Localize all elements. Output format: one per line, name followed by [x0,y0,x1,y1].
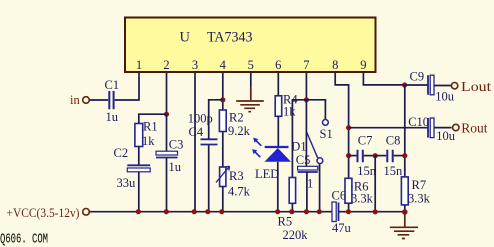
svg-text:R7: R7 [412,178,427,192]
node Rout terminal [453,121,488,136]
svg-text:Lout: Lout [461,79,491,94]
wire rail right of C6 [339,211,405,213]
capacitor C2 [114,146,151,190]
wire C4 to rail [208,145,210,212]
wire pin7 to C5 [305,100,307,167]
node Lout terminal [451,79,491,94]
svg-text:C3: C3 [169,138,184,152]
svg-text:3.3k: 3.3k [408,192,431,206]
wire R7 to rail [404,205,406,212]
svg-text:C5: C5 [296,153,311,167]
svg-text:D1: D1 [291,140,306,154]
svg-text:5: 5 [248,58,254,72]
svg-text:R5: R5 [278,215,293,229]
svg-text:33u: 33u [117,176,137,190]
capacitor C4 [188,112,218,145]
wire C9 to Lout [434,85,451,87]
IC U TA7343 [125,18,376,73]
resistor R4 [275,93,298,119]
node rail junction D1 [275,209,280,214]
svg-text:TA7343: TA7343 [207,30,253,46]
wire C2 to rail [138,172,140,212]
node junction pin2/R1/C3 [164,112,169,117]
node rail junction R6 [346,209,351,214]
svg-text:C1: C1 [105,78,120,92]
wire pin 2 down [166,73,168,114]
node rail junction C3 [164,209,169,214]
resistor R1 [135,120,158,149]
svg-text:1k: 1k [142,134,155,148]
wire junction to C4 [209,100,223,139]
wire junction to C9 [405,84,429,86]
svg-text:Rout: Rout [461,121,488,136]
node junction pin7 [304,97,309,102]
wire C7 to node [364,155,375,157]
wire junction to C7 [349,155,357,157]
resistor R7 [401,177,430,206]
node junction C8/R7 [402,153,407,158]
svg-text:10u: 10u [436,129,456,143]
capacitor C8 [384,133,404,178]
wire R4 to D1 [277,116,279,146]
svg-text:6: 6 [275,58,281,72]
svg-text:4.7k: 4.7k [228,185,251,199]
resistor R6 [345,178,374,205]
wire R6 to rail [348,203,350,212]
svg-text:C6: C6 [332,188,347,202]
wire C10 to Rout [434,127,451,129]
svg-text:15n: 15n [384,164,404,178]
node junction pin8/C7 [346,153,351,158]
wire C5 to rail [306,172,308,211]
node in terminal [70,93,89,107]
svg-text:S1: S1 [320,127,333,141]
wire junction to C3 [166,114,168,151]
svg-text:3.3k: 3.3k [351,192,374,206]
capacitor C10 [408,115,456,143]
svg-text:2: 2 [163,58,169,72]
svg-text:in: in [70,93,80,107]
node junction pin8/C10 [346,125,351,130]
node rail junction C4 [205,209,210,214]
svg-text:LED: LED [255,167,279,181]
capacitor C7 [357,133,377,178]
svg-text:220k: 220k [283,228,309,242]
node rail junction pin3 [192,209,197,214]
svg-text:1: 1 [307,177,313,191]
svg-text:R2: R2 [229,111,244,125]
wire pin 8 down [335,73,348,178]
wire R1 to C2 [138,147,140,165]
svg-text:R3: R3 [229,169,244,183]
wire junction to R1 [139,114,167,123]
wire in to C1 [90,99,109,101]
wire junction to R5 [292,100,306,178]
wire pin9 node down to R7 [404,85,406,177]
svg-text:Q606. COM: Q606. COM [0,233,48,247]
node rail junction R7/ground [402,209,408,215]
wire junction to S1 top [306,100,325,120]
capacitor C9 [410,70,455,104]
resistor R5 [278,178,309,243]
wire pin 6 to R4 [277,73,279,96]
svg-text:3: 3 [192,58,198,72]
wire pin 3 to rail [194,73,196,212]
capacitor C3 [156,138,183,175]
node rail junction C5 [304,209,309,214]
svg-text:+VCC(3.5-12v): +VCC(3.5-12v) [7,206,80,220]
svg-text:10u: 10u [435,90,455,104]
wire pin 7 down [305,73,307,100]
ground at pin 5 [236,87,264,112]
svg-text:U: U [180,30,191,46]
node rail junction C7/C8 [373,209,378,214]
svg-text:1k: 1k [283,105,296,119]
node rail junction R5 [289,209,294,214]
node junction pin9/C9 [402,82,407,87]
resistor R3 (variable) [216,166,251,198]
wire S1 to rail [319,164,321,212]
wire R3 to rail [222,187,224,212]
switch S1 [306,120,332,164]
svg-text:C4: C4 [189,125,204,139]
capacitor C5 [296,153,318,191]
wire VCC rail left [90,211,333,213]
svg-text:4: 4 [220,58,227,72]
LED D1 [252,138,306,181]
node VCC terminal [7,206,90,220]
node rail junction S1 [317,209,322,214]
node junction C7/C8 [373,153,378,158]
wire pin 5 down [250,73,252,87]
svg-text:15n: 15n [357,164,377,178]
capacitor C1 [105,78,120,124]
wire R5 to rail [291,203,293,211]
svg-text:C7: C7 [358,133,373,147]
svg-text:C10: C10 [408,115,429,129]
wire pin8 to C10 [349,127,429,129]
svg-text:1: 1 [136,58,142,72]
node rail junction C2 [136,209,141,214]
wire D1 to rail [277,162,279,212]
node junction pin4/C4 [220,97,225,102]
resistor R2 [219,110,250,138]
svg-text:9: 9 [360,58,366,72]
capacitor C6 [332,188,352,235]
svg-text:7: 7 [303,58,309,72]
svg-text:C9: C9 [410,70,425,84]
wire pin 4 down [222,73,224,110]
svg-text:9.2k: 9.2k [228,124,251,138]
wire C3 to rail [166,158,168,212]
wire R2 to R3 [222,132,224,168]
svg-text:C2: C2 [114,146,129,160]
svg-text:1u: 1u [169,160,182,174]
ground at output [390,214,418,239]
svg-text:47u: 47u [332,221,352,235]
wire C8 to pin9 line [394,155,405,157]
svg-text:100p: 100p [188,112,213,126]
svg-text:8: 8 [332,58,338,72]
wire pin 9 right [363,73,404,85]
wire C1 to pin 1 [115,73,139,100]
wire node C7/C8 to rail [374,156,376,212]
node rail junction R3 [219,209,224,214]
wire node to C8 [375,155,386,157]
svg-text:C8: C8 [386,133,401,147]
svg-text:1u: 1u [106,110,119,124]
svg-text:R1: R1 [143,120,158,134]
